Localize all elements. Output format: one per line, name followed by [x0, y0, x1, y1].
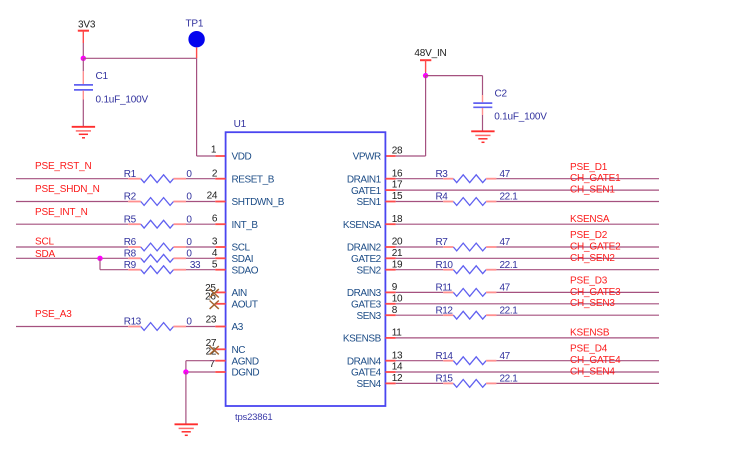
svg-text:AGND: AGND [232, 356, 259, 367]
wire junction to TP1 corner [83, 57, 196, 59]
svg-text:19: 19 [392, 259, 403, 270]
svg-text:CH_GATE2: CH_GATE2 [570, 242, 621, 253]
svg-text:KSENSB: KSENSB [343, 334, 382, 345]
svg-text:PSE_SHDN_N: PSE_SHDN_N [35, 184, 100, 195]
svg-text:CH_SEN2: CH_SEN2 [570, 253, 615, 264]
wire junction to C2 [426, 75, 483, 77]
svg-text:22.1: 22.1 [500, 192, 519, 203]
resistor R11 row wire [385, 289, 659, 297]
wire C2 to ground [482, 115, 484, 131]
svg-text:47: 47 [500, 169, 511, 180]
pin stub no-connect 27 [215, 348, 225, 350]
resistor R14 row wire [385, 357, 659, 365]
resistor R3 row wire [385, 175, 659, 183]
wire row [385, 257, 659, 259]
svg-text:SDAO: SDAO [232, 265, 259, 276]
node AGND/DGND junction [183, 369, 188, 374]
svg-text:PSE_D2: PSE_D2 [570, 230, 608, 241]
svg-text:DRAIN2: DRAIN2 [347, 243, 382, 254]
resistor R8 row wire [16, 254, 226, 262]
resistor R15 row wire [385, 380, 659, 388]
node 3V3/C1/TP1 junction [81, 56, 86, 61]
svg-text:VDD: VDD [232, 152, 252, 163]
resistor R2 row wire [16, 198, 226, 206]
svg-text:0: 0 [186, 249, 192, 260]
svg-text:DRAIN4: DRAIN4 [347, 356, 382, 367]
power symbol 3V3 [78, 20, 96, 44]
no-connect X pin 25 [210, 289, 219, 297]
wire 3V3 to junction [82, 43, 84, 58]
svg-text:SHTDWN_B: SHTDWN_B [232, 197, 285, 208]
svg-text:SDAI: SDAI [232, 254, 254, 265]
svg-text:R8: R8 [124, 249, 137, 260]
svg-text:SEN3: SEN3 [356, 311, 381, 322]
svg-text:KSENSA: KSENSA [343, 220, 382, 231]
pin stub no-connect 26 [215, 303, 225, 305]
svg-text:11: 11 [392, 328, 402, 339]
svg-text:SCL: SCL [232, 243, 251, 254]
svg-text:20: 20 [392, 237, 403, 248]
svg-text:tps23861: tps23861 [235, 412, 273, 423]
svg-text:R1: R1 [124, 169, 137, 180]
svg-text:SEN4: SEN4 [356, 379, 381, 390]
wire junction down to C1 [82, 58, 84, 71]
svg-text:R3: R3 [436, 169, 449, 180]
svg-text:0: 0 [186, 214, 192, 225]
svg-text:48V_IN: 48V_IN [414, 48, 446, 59]
svg-text:RESET_B: RESET_B [232, 174, 275, 185]
svg-text:SCL: SCL [35, 236, 54, 247]
svg-text:C2: C2 [495, 88, 508, 99]
svg-text:AOUT: AOUT [232, 300, 258, 311]
wire AGND corner down [185, 361, 187, 372]
svg-text:14: 14 [392, 362, 403, 373]
svg-text:R7: R7 [436, 237, 449, 248]
svg-text:12: 12 [392, 373, 403, 384]
svg-text:0: 0 [186, 169, 192, 180]
resistor R6 row wire [16, 243, 226, 251]
resistor R4 row wire [385, 198, 659, 206]
svg-text:47: 47 [500, 237, 511, 248]
wire to pin 1 [197, 155, 216, 157]
svg-text:R4: R4 [436, 192, 449, 203]
svg-text:PSE_INT_N: PSE_INT_N [35, 207, 88, 218]
svg-text:0.1uF_100V: 0.1uF_100V [494, 111, 547, 122]
wire SDA branch down [99, 258, 101, 269]
svg-text:NC: NC [232, 345, 246, 356]
svg-text:8: 8 [392, 305, 398, 316]
svg-text:VPWR: VPWR [353, 152, 381, 163]
svg-text:10: 10 [392, 293, 403, 304]
svg-text:R9: R9 [124, 260, 137, 271]
resistor R12 row wire [385, 311, 659, 319]
svg-text:R5: R5 [124, 214, 137, 225]
svg-text:SDA: SDA [35, 249, 55, 260]
svg-text:R11: R11 [436, 283, 453, 294]
svg-text:CH_SEN1: CH_SEN1 [570, 185, 615, 196]
resistor R1 row wire [16, 175, 226, 183]
wire row [385, 371, 659, 373]
svg-text:23: 23 [206, 314, 217, 325]
pin 28 stub VPWR [385, 155, 395, 157]
svg-text:CH_SEN3: CH_SEN3 [570, 298, 615, 309]
svg-text:C1: C1 [96, 71, 109, 82]
wire junction down to pin 28 [425, 76, 427, 156]
svg-text:15: 15 [392, 191, 403, 202]
svg-text:PSE_RST_N: PSE_RST_N [35, 161, 92, 172]
resistor R13 row wire [16, 323, 226, 331]
svg-text:22.1: 22.1 [500, 305, 519, 316]
svg-text:SEN2: SEN2 [356, 265, 381, 276]
svg-text:CH_SEN4: CH_SEN4 [570, 366, 615, 377]
svg-text:DRAIN1: DRAIN1 [347, 174, 382, 185]
svg-text:U1: U1 [234, 119, 247, 130]
svg-text:0.1uF_100V: 0.1uF_100V [96, 94, 149, 105]
capacitor C1 [74, 71, 149, 106]
svg-text:0: 0 [186, 317, 192, 328]
svg-text:CH_GATE1: CH_GATE1 [570, 173, 621, 184]
wire row [385, 337, 659, 339]
svg-text:KSENSB: KSENSB [570, 327, 610, 338]
svg-text:28: 28 [392, 146, 403, 157]
wire row [385, 189, 659, 191]
svg-text:5: 5 [212, 259, 218, 270]
resistor R7 row wire [385, 243, 659, 251]
ground under U1 [175, 424, 198, 435]
svg-text:PSE_D4: PSE_D4 [570, 344, 608, 355]
wire pin28 horizontal [396, 155, 426, 157]
svg-text:GATE4: GATE4 [351, 368, 382, 379]
svg-text:R6: R6 [124, 237, 137, 248]
svg-text:0: 0 [186, 192, 192, 203]
svg-text:R10: R10 [436, 260, 454, 271]
svg-text:DRAIN3: DRAIN3 [347, 288, 382, 299]
svg-text:INT_B: INT_B [232, 220, 259, 231]
svg-text:R14: R14 [436, 351, 454, 362]
svg-text:1: 1 [211, 144, 217, 155]
capacitor C2 [473, 76, 547, 123]
svg-text:CH_GATE4: CH_GATE4 [570, 355, 621, 366]
svg-text:GATE3: GATE3 [351, 300, 382, 311]
svg-text:0: 0 [186, 237, 192, 248]
svg-text:47: 47 [500, 351, 511, 362]
svg-text:4: 4 [212, 248, 218, 259]
no-connect X pin 27 [210, 346, 219, 354]
wire C1 to ground [82, 100, 84, 127]
svg-text:24: 24 [207, 191, 218, 202]
svg-text:A3: A3 [232, 322, 244, 333]
pin stub no-connect 25 [215, 291, 225, 293]
svg-text:22.1: 22.1 [500, 374, 519, 385]
ground under C2 [471, 131, 494, 142]
svg-text:33: 33 [190, 260, 201, 271]
svg-text:R13: R13 [124, 317, 142, 328]
ground under C1 [72, 127, 95, 138]
svg-text:21: 21 [392, 248, 403, 259]
op-amp U1 tps23861 body [226, 119, 386, 423]
svg-text:DGND: DGND [232, 368, 260, 379]
wire row [385, 303, 659, 305]
svg-text:GATE1: GATE1 [351, 186, 382, 197]
resistor R9 row wire [100, 266, 226, 274]
svg-text:16: 16 [392, 168, 403, 179]
svg-text:KSENSA: KSENSA [570, 214, 610, 225]
testpoint TP1 [186, 19, 205, 59]
svg-text:17: 17 [392, 180, 403, 191]
svg-text:6: 6 [212, 214, 218, 225]
node SDA junction [97, 256, 102, 261]
svg-text:R2: R2 [124, 192, 137, 203]
svg-text:AIN: AIN [232, 288, 248, 299]
wire AGND [186, 360, 226, 362]
svg-text:PSE_A3: PSE_A3 [35, 309, 72, 320]
svg-text:9: 9 [392, 282, 398, 293]
svg-text:R12: R12 [436, 305, 454, 316]
svg-text:47: 47 [500, 283, 511, 294]
svg-text:CH_GATE3: CH_GATE3 [570, 287, 621, 298]
svg-text:PSE_D3: PSE_D3 [570, 275, 608, 286]
node 48V_IN junction [423, 73, 428, 78]
svg-text:PSE_D1: PSE_D1 [570, 162, 608, 173]
no-connect X pin 26 [210, 301, 219, 309]
svg-text:3V3: 3V3 [78, 20, 96, 31]
wire TP1 corner down to pin 1 row [196, 58, 198, 156]
svg-text:22.1: 22.1 [500, 260, 519, 271]
svg-text:R15: R15 [436, 374, 454, 385]
wire DGND [186, 371, 226, 373]
svg-text:13: 13 [392, 350, 403, 361]
svg-text:GATE2: GATE2 [351, 254, 382, 265]
svg-text:3: 3 [212, 236, 218, 247]
resistor R10 row wire [385, 266, 659, 274]
wire row [385, 223, 659, 225]
svg-text:TP1: TP1 [186, 19, 204, 30]
pin 1 stub VDD [215, 155, 225, 157]
wire down to chip ground [185, 372, 187, 424]
resistor R5 row wire [16, 220, 226, 228]
wire 48V stub to junction [425, 72, 427, 76]
power symbol 48V_IN [414, 48, 446, 72]
svg-text:SEN1: SEN1 [356, 197, 381, 208]
svg-text:18: 18 [392, 214, 403, 225]
